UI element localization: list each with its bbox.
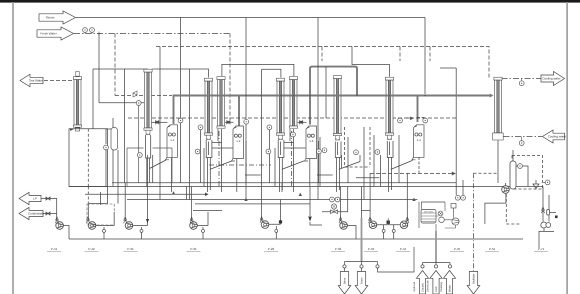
instrument right [545,180,550,185]
pump7/8 tie line [377,225,400,239]
E1 sep feed valve [152,121,168,123]
instrument [267,125,272,130]
arrow vertical texts [343,273,475,292]
pump P-22 [261,221,269,229]
svg-text:C-1: C-1 [146,133,151,136]
band verticals [101,129,294,205]
pump3 discharge [133,155,148,239]
E3 chute box [275,141,319,187]
instrument [137,153,142,158]
pump6 discharge [347,226,356,240]
valve c1 [133,91,137,97]
svg-text:Distillate: Distillate [472,273,475,284]
pump P-32 [340,222,348,230]
bottom long discharge line y237.5 [69,238,523,240]
instrument [104,145,109,150]
x456 vertical [440,68,463,195]
column C-3a [276,78,284,139]
tank T1 top lines [127,148,172,187]
pump8 suction [406,173,408,221]
dashed drop x322 [321,47,323,62]
drum riser dashed x115 [114,34,116,96]
distillate dashdot down [473,173,475,271]
drain diagonal effect3 [282,161,304,170]
svg-text:P-43: P-43 [368,247,375,251]
vapor header overlay [174,95,493,97]
column C-4 [333,76,341,140]
pump P-43 [369,221,377,229]
triangle marker 1 [172,191,175,194]
flag Condensate [19,207,43,219]
up arrow 2 [430,271,442,294]
tank under column C-0 [69,129,118,204]
downcomer C-3a [278,140,284,192]
down arrow 2 [355,268,368,294]
svg-text:P-45: P-45 [454,247,461,251]
svg-text:P-71: P-71 [538,247,545,251]
line y199.5 [127,199,417,201]
line y210.6 segment [193,210,222,212]
E2 chute box [204,141,246,187]
svg-text:P-41: P-41 [51,247,58,251]
steam branch x246 down [245,18,247,65]
effect2 top elbow [190,69,209,78]
separator E-1 [166,125,178,160]
pump P-51 [502,186,510,194]
dashed enclosure right [512,156,543,190]
filled valve diamond [308,217,312,222]
svg-text:P-22: P-22 [268,247,275,251]
svg-text:1-1: 1-1 [170,138,174,142]
line y203.9 [195,203,310,205]
x310 drain w valve [310,187,322,225]
instrument c1 [136,101,141,106]
svg-text:Acid: Acid [435,286,438,292]
svg-text:P-42: P-42 [88,247,95,251]
downcomer C-4 [335,142,341,193]
E2 area verticals [190,64,247,200]
fresh water drop x99 [98,34,100,103]
svg-text:1-2: 1-2 [236,139,240,143]
svg-text:Drain: Drain [360,277,363,284]
pump4 suction [191,187,193,222]
line y102.7 [99,102,144,104]
instrument pair top left [83,28,88,33]
vapor riser E-2 thick [238,96,240,127]
discharge valve circles [103,229,396,232]
svg-text:C-3: C-3 [278,138,283,141]
dashed enclosure lower [506,189,520,224]
dashed box pump2 [87,204,114,225]
long line y186.5 [69,186,543,188]
control valve station [331,204,338,214]
instrument cw in [519,141,524,146]
valve [434,265,437,268]
svg-text:1-4: 1-4 [417,138,421,142]
pump5 discharge [269,200,281,240]
svg-text:Chemicals: Chemicals [426,280,429,292]
flag Sea water [20,74,43,87]
line into C-1 top [93,69,190,129]
CIP M-box [451,204,456,209]
vapor header thick y95.5 [174,96,493,125]
downcomer C-1 [146,135,151,187]
line y194.3 w arrow [85,193,207,195]
svg-text:C-5: C-5 [387,138,392,141]
separator E-4 [412,125,424,160]
instrument [244,119,249,124]
svg-text:Cooling water: Cooling water [542,77,560,81]
brine line vertical thick [361,218,363,262]
instrument pair p32 [330,197,335,202]
E4 sep/drain [341,155,343,168]
svg-text:Sea Water: Sea Water [29,79,43,83]
downcomer C-2a [206,140,212,192]
C-0 bottom valve box [70,128,80,131]
mid dashed line y118 [128,117,457,119]
svg-text:Fresh Water: Fresh Water [40,32,56,36]
CIP pump2 [452,218,459,225]
E5 vertical x364 [363,127,365,200]
pump1 discharge [63,226,69,240]
dashed drop x400 [399,47,401,62]
instrument pair cip [455,195,460,200]
CIP pump small [439,217,445,223]
down arrow 1 [338,268,351,294]
E5 area verticals [374,135,399,187]
cooling water in dashdot [504,136,543,138]
frame top bar [0,0,580,3]
flag Cooling water out [541,72,565,86]
drain diagonal effect4 [339,155,360,169]
E4 sep feed arrow [406,117,413,119]
ground triangle [533,180,539,189]
standpipe c1 [138,105,140,182]
triangle marker 3 [299,193,302,196]
flag Fresh water [37,27,74,40]
vapor dashed from drum area [115,95,172,97]
thick brine drop [361,239,363,262]
pump7 suction [362,173,371,221]
drain diagonal effect1 [150,160,167,169]
side labels for up arrows [413,280,443,292]
pump3 suction [124,183,126,221]
svg-text:P-21: P-21 [190,247,197,251]
sep E4 drain [417,118,425,174]
svg-text:Brine: Brine [343,277,346,284]
separator E-3 [305,126,317,161]
column labels [146,133,392,142]
condensate flag line [43,197,57,215]
thick cip feed [435,231,437,263]
drain arrowhead [452,172,456,176]
instrument [354,150,359,155]
condenser bottom drop [497,141,499,184]
flag LP [19,192,41,204]
instrument [266,149,271,154]
svg-text:Hydroxid: Hydroxid [413,282,416,292]
frame left line [12,2,14,294]
fresh water drop x230 [229,34,231,121]
effect3b header y61 [262,69,281,77]
CIP pipe pair [419,202,445,228]
instrument cw out [519,81,524,86]
valve [448,265,451,268]
dashed top to condenser drop [474,172,499,174]
dashdot y165 [209,164,271,166]
column C-2b [217,77,225,129]
pump5 suction [261,200,263,221]
svg-text:P-32: P-32 [335,247,342,251]
triangle marker 2 [244,198,247,201]
column C-0 [73,77,81,128]
triangle marker 4 [412,198,415,201]
downcomer C-5 [387,141,393,192]
instrument [291,132,296,137]
dashed drop x430 [429,47,431,62]
drum D-1 lines [106,118,113,144]
pump P-21 [190,222,198,230]
dashdot drop C-2b [218,131,220,188]
svg-text:Cooling water: Cooling water [548,135,566,139]
suction ticks [55,217,58,223]
flag Cooling water in [543,130,565,143]
valve [421,265,424,268]
pump P-44 [400,221,408,229]
header to C-5 [352,47,390,77]
filled valve p5 [279,220,282,223]
LP flag line [41,199,57,222]
condenser to pump [485,183,506,224]
filled valve pumps7/8 [387,221,390,224]
svg-text:LP: LP [33,197,37,201]
instrument [317,149,322,154]
svg-text:P-44: P-44 [400,247,407,251]
pump P-41 [56,222,64,230]
svg-text:1-3: 1-3 [309,139,313,143]
condenser column [493,77,504,140]
control valve station line [322,187,348,212]
CIP connections [436,202,456,231]
filled valve on x147.5 [146,219,149,223]
column C-2a [204,78,212,139]
E1 area verticals [106,47,172,200]
instrument deaerator [518,164,523,169]
long line y183 [112,182,456,184]
column C-1 [144,69,152,134]
dashdot drop C-3b [291,131,293,188]
brine line upper [361,187,363,219]
cip connector [423,263,451,265]
sea water dashed [44,80,74,82]
frame right line [566,2,568,294]
instrument e4 top [398,118,403,123]
instrument [375,150,380,155]
top dashed header [156,47,489,80]
svg-text:Steam: Steam [46,16,55,20]
steam branch x180 down [180,18,182,184]
steam main line [76,18,425,95]
svg-text:C-2: C-2 [206,138,211,141]
effect2b header y64 [222,64,294,76]
CIP inst circle-x [438,211,443,216]
right inst line [543,181,546,183]
fresh water dash-dot [74,33,230,35]
instrument [423,118,428,123]
pump P-42 [88,222,96,230]
column C-3b [289,77,297,129]
vapor duct E3 to C-4 thick [310,67,357,125]
valve [360,265,363,268]
svg-text:Caustic: Caustic [421,282,424,292]
deaerator side line [516,166,528,187]
E5 battery dashed box [345,127,370,167]
pump P-31 [125,222,133,230]
down arrow right [467,272,480,294]
svg-text:Condensate: Condensate [28,212,45,216]
E5 elbow segment y177.7 [356,177,380,179]
CIP tank [421,210,436,224]
svg-text:C-4: C-4 [335,138,340,141]
drain diagonal effect2 [210,161,232,170]
vapor riser E-4 thick [417,95,419,123]
elbow segment y175 E3 [317,174,333,176]
valve [343,265,346,268]
small drum D-1 [111,128,118,151]
valve [376,265,379,268]
svg-text:Cleaning: Cleaning [440,282,443,292]
svg-text:CIP Tank: CIP Tank [424,211,434,214]
elbow segment y175 E2 [245,174,261,176]
instrument [195,149,200,154]
up arrow 3 [443,271,455,294]
svg-text:P-31: P-31 [127,247,134,251]
svg-text:P-51: P-51 [489,247,496,251]
instrument [198,125,203,130]
dashed drain y173 [370,173,454,175]
pump4 discharge [197,212,208,239]
cooling water out dashdot [502,78,542,80]
instrument [322,148,327,153]
E4 area verticals [320,67,348,187]
deaerator vessel [510,161,516,189]
svg-text:Water: Water [448,285,451,292]
C-0 vent stub [76,72,79,77]
pump2 suction [87,204,89,221]
instrument x180 [178,118,183,123]
E3 area verticals [262,18,318,200]
vapor header arrowhead [490,94,494,98]
elbow to box [378,247,415,272]
separator E-2 [232,126,244,161]
deaerator top line [512,150,514,161]
flag Steam [39,11,76,24]
pump6 suction [340,187,342,222]
brine connector [345,262,378,265]
pump2 discharge [96,212,114,239]
drain diagonal effect5 [391,160,413,169]
header junction dots [245,95,426,97]
E2 sep feed valve [225,121,234,123]
column C-5 [385,77,393,139]
up arrow 1 [416,271,428,294]
E3 sep feed valve [298,121,307,123]
